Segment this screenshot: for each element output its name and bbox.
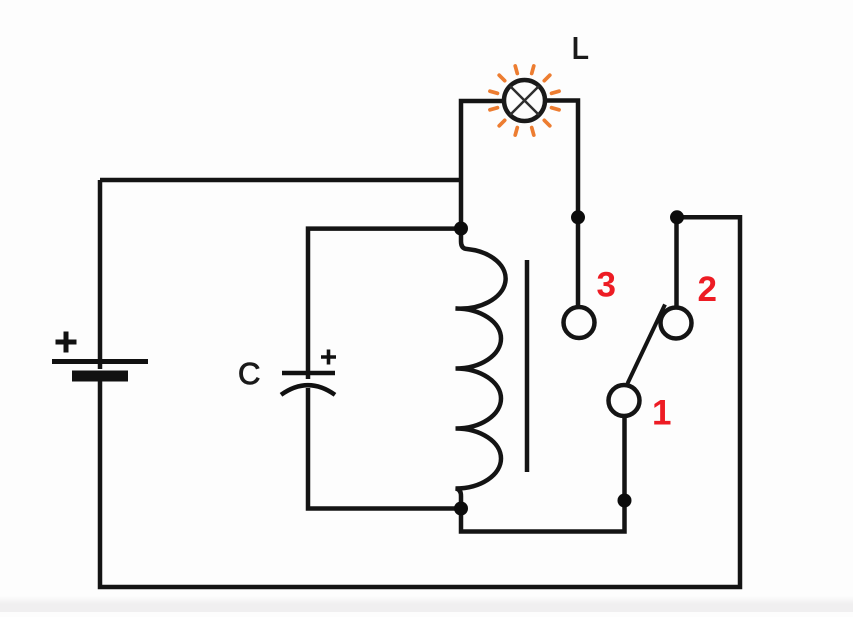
battery negative plate <box>72 371 128 382</box>
wire: coil bottom to switch common <box>461 417 625 532</box>
battery positive plate <box>52 359 148 364</box>
junction dot at coil bottom <box>454 502 468 516</box>
svg-text:L: L <box>572 31 589 66</box>
svg-text:3: 3 <box>597 266 616 305</box>
wire: lamp left leg <box>461 101 503 230</box>
svg-text:1: 1 <box>652 394 671 433</box>
capacitor curved plate <box>281 385 335 395</box>
switch contact 3 <box>564 307 595 338</box>
wire: battery bottom vertical + outer bottom + right riser <box>100 217 740 587</box>
capacitor plus sign <box>321 350 336 365</box>
switch contact 2 <box>661 308 692 339</box>
junction dot above contact 2 <box>670 210 684 224</box>
junction dot above contact 3 <box>571 210 585 224</box>
battery plus sign <box>56 332 77 353</box>
wire: contact 2 up to junction <box>674 217 679 307</box>
wire: capacitor bottom connection <box>308 388 461 509</box>
switch lever <box>628 305 666 384</box>
relay core bar <box>525 260 530 472</box>
relay coil <box>456 229 506 509</box>
svg-text:C: C <box>238 356 260 391</box>
wire: battery top vertical <box>98 180 103 369</box>
junction dot at coil top <box>454 222 468 236</box>
lamp L: glow rays <box>490 66 559 135</box>
wire: top horizontal from battery to lamp branch <box>100 178 461 183</box>
svg-text:2: 2 <box>698 270 717 309</box>
junction dot below contact 1 <box>618 494 632 508</box>
wire: lamp right leg down to contact 3 <box>546 101 578 307</box>
capacitor top plate <box>282 371 335 376</box>
switch contact 1 <box>609 385 640 416</box>
wire: capacitor top connection <box>308 229 461 379</box>
lamp L: circle with X <box>504 80 545 121</box>
